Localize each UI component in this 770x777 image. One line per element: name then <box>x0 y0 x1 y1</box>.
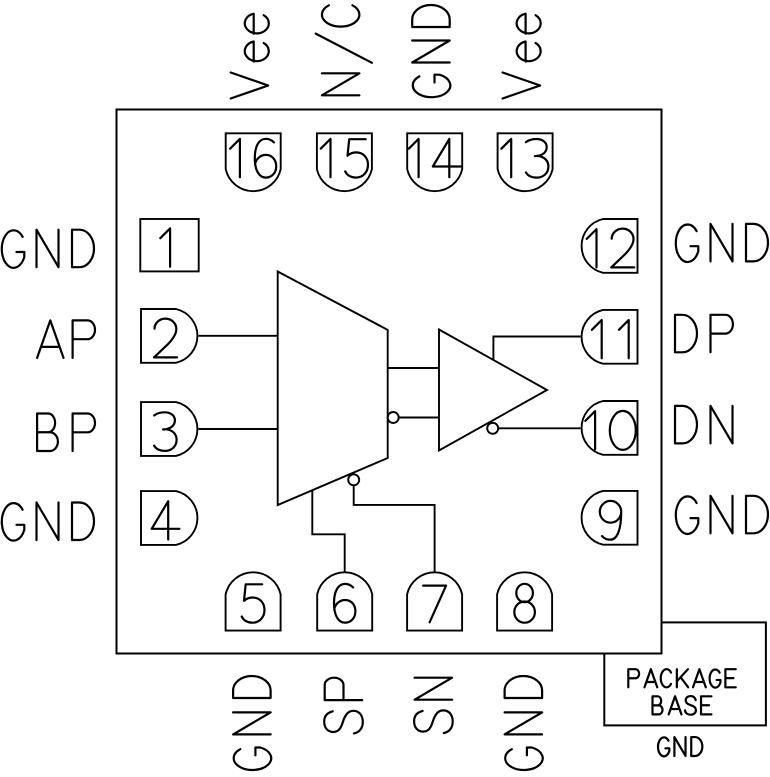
output buffer U2 (triangle) <box>439 330 547 451</box>
wire bubble to buffer (inverting) <box>399 417 439 419</box>
package outline <box>117 110 662 654</box>
pin 7 <box>407 572 462 630</box>
pin 11 <box>582 310 638 364</box>
pin 5 <box>226 572 281 630</box>
label BP (pin 3) <box>37 414 95 452</box>
wire SP: comparator bottom edge to pin6 <box>312 490 344 573</box>
label SP (pin 6) <box>324 678 363 734</box>
pin 8 <box>497 572 552 630</box>
package base box <box>604 622 766 725</box>
inversion bubble on buffer output <box>487 423 498 434</box>
label GND (pin 5) <box>233 676 271 770</box>
pin 6 number <box>334 584 355 623</box>
pin 12 <box>582 219 638 273</box>
pin 3 number <box>154 412 177 451</box>
pin 16 <box>226 133 281 191</box>
inversion bubble on comparator output <box>388 412 399 423</box>
pin 2 number <box>154 319 177 358</box>
pin 4 number <box>152 501 180 539</box>
pin 8 number <box>514 584 535 623</box>
pin 2 <box>141 309 197 363</box>
pin 3 <box>141 402 197 456</box>
comparator U1 (trapezoid) <box>278 272 388 506</box>
label GND (pin 12) <box>676 224 768 262</box>
label Vee (pin 16) <box>231 14 269 99</box>
inversion bubble on comparator SN input <box>348 474 359 485</box>
pin 10 <box>582 401 638 455</box>
pin 15 <box>317 133 372 191</box>
label GND (pin 8) <box>505 676 543 770</box>
label Vee (pin 13) <box>503 14 541 99</box>
pin 13 number <box>501 139 548 178</box>
label DP (pin 11) <box>675 315 733 353</box>
wire pin2 AP to comparator <box>199 335 278 337</box>
pin 14 number <box>409 139 461 177</box>
wire SN: bubble to pin7 <box>354 485 435 573</box>
pin 1 <box>140 219 198 271</box>
wire pin3 BP to comparator <box>199 428 278 430</box>
pin 9 <box>582 491 638 545</box>
pin 13 <box>498 133 553 191</box>
label PACKAGE <box>628 669 735 687</box>
label BASE <box>653 696 712 715</box>
label GND (pin 14) <box>412 5 450 97</box>
pin 14 <box>407 133 462 191</box>
pin 4 <box>141 491 197 545</box>
pin 9 number <box>600 501 621 540</box>
pin 10 number <box>585 411 636 450</box>
wire DN: bubble to pin10 <box>498 427 580 429</box>
pin 15 number <box>321 139 368 178</box>
label N/C (pin 15) <box>316 5 372 95</box>
label SN (pin 7) <box>414 678 453 733</box>
pin 16 number <box>230 139 276 178</box>
wire DP: buffer top edge to pin11 <box>493 337 580 361</box>
pin 12 number <box>587 229 635 268</box>
label GND (pin 9) <box>676 496 768 534</box>
label GND (pin 4) <box>2 503 94 541</box>
pin 1 number <box>160 228 170 266</box>
pin 5 number <box>242 584 265 622</box>
label DN (pin 10) <box>675 406 733 444</box>
pin 7 number <box>423 586 446 623</box>
pin 11 number <box>592 320 629 358</box>
label GND (pin 1) <box>2 230 94 268</box>
label GND (package base) <box>658 737 702 756</box>
wire comparator to buffer (non-inverting) <box>388 367 439 369</box>
pin 6 <box>317 572 372 630</box>
label AP (pin 2) <box>37 320 95 358</box>
